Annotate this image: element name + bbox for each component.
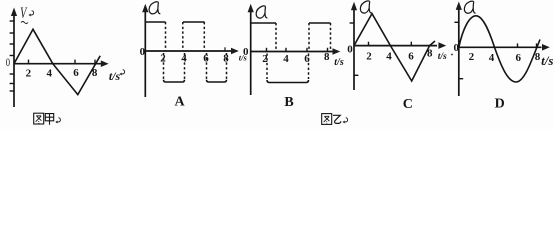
svg-text:A: A (174, 95, 185, 110)
svg-text:6: 6 (515, 52, 521, 64)
svg-text:4: 4 (47, 67, 53, 79)
svg-text:2: 2 (366, 51, 372, 63)
svg-text:0: 0 (6, 55, 10, 69)
svg-text:4: 4 (283, 53, 289, 65)
svg-text:2: 2 (469, 51, 475, 63)
svg-text:8: 8 (223, 53, 229, 65)
svg-text:2: 2 (262, 53, 268, 65)
svg-text:B: B (284, 95, 293, 110)
svg-text:0: 0 (454, 42, 460, 54)
svg-text:V: V (20, 4, 28, 22)
svg-text:6: 6 (304, 53, 310, 65)
svg-text:4: 4 (386, 51, 392, 63)
svg-text:2: 2 (26, 67, 32, 79)
svg-text:4: 4 (181, 53, 187, 65)
svg-text:8: 8 (535, 51, 541, 63)
svg-text:8: 8 (92, 67, 98, 79)
svg-text:4: 4 (489, 52, 495, 64)
svg-text:2: 2 (160, 53, 166, 65)
svg-text:t/s: t/s (438, 52, 447, 62)
svg-text:0: 0 (243, 46, 249, 58)
svg-text:8: 8 (427, 48, 433, 60)
svg-text:6: 6 (203, 53, 209, 65)
svg-text:D: D (495, 97, 505, 112)
svg-text:0: 0 (140, 46, 146, 58)
svg-text:0: 0 (347, 44, 353, 56)
svg-text:C: C (403, 97, 413, 112)
svg-text:6: 6 (408, 51, 414, 63)
svg-text:t/s: t/s (109, 69, 121, 83)
svg-text:6: 6 (73, 67, 79, 79)
svg-text:t/s: t/s (334, 57, 344, 68)
svg-text:t/s: t/s (541, 53, 553, 68)
svg-text:8: 8 (324, 51, 330, 63)
